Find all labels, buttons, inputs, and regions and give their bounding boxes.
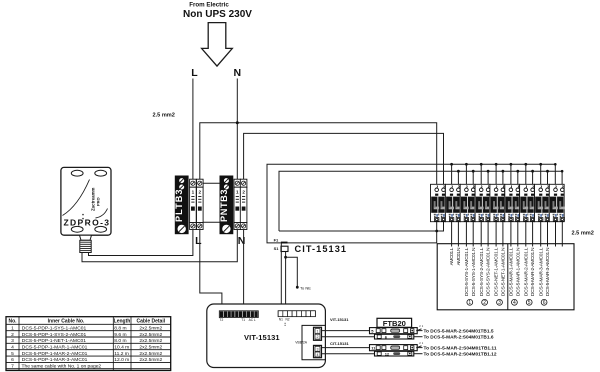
wire: FTB20.11 output <box>416 347 422 349</box>
fuse F1 <box>274 238 288 244</box>
junction + wire: L bus stub to breaker CB2 pole1 <box>450 163 453 184</box>
svg-text:VIT-15131: VIT-15131 <box>244 333 280 342</box>
svg-text:N2: N2 <box>286 318 290 322</box>
wire: rail bridge bottom between PLTB3 and PNTB3 <box>203 221 219 223</box>
wire: breaker CB7 pole2 output <box>532 222 534 247</box>
wire: breaker CB3 pole2 output <box>472 222 474 247</box>
svg-text:Non UPS 230V: Non UPS 230V <box>183 9 252 20</box>
label: To DCS-5-MAR-2:S04M01TB1.12 <box>424 352 498 357</box>
svg-text:2x2.5mm2: 2x2.5mm2 <box>139 351 162 357</box>
svg-text:DCS-5-MAR-3-AMC01.L: DCS-5-MAR-3-AMC01.L <box>538 247 544 296</box>
wire: ZDPRO-3 to PLTB3 pole1 bottom <box>89 230 193 256</box>
svg-text:5: 5 <box>11 351 14 357</box>
terminal block PNTB3: pole strip 2 <box>240 179 247 229</box>
svg-text:VBB/2A: VBB/2A <box>295 341 308 345</box>
wire: breaker CB8 pole1 output <box>540 222 542 247</box>
wire: inner N bus loop (to breakers) <box>279 171 562 231</box>
svg-text:2: 2 <box>242 190 245 195</box>
surge protector ZDPRO-3: body <box>61 167 111 235</box>
arrow: supply down-arrow <box>202 23 233 67</box>
label: CIT-15131 <box>295 244 347 254</box>
cable number 6 <box>541 299 547 306</box>
terminal block PLTB3: pole strip 1 <box>190 179 197 229</box>
net label: DCS-5-NET-1-AMC01.L <box>494 247 500 296</box>
svg-text:N: N <box>238 235 246 247</box>
circuit breaker CB2 <box>445 184 461 221</box>
svg-text:3: 3 <box>11 338 14 344</box>
wire: outer L bus loop (F1 to breakers) <box>267 164 555 243</box>
junction + wire: N bus stub to breaker CB3 pole2 <box>472 170 475 185</box>
node L (incoming line) <box>191 67 198 79</box>
svg-text:CIT-15131: CIT-15131 <box>295 244 347 254</box>
wire: J2.4 to FTB20 fuse terminal 12 <box>322 353 375 355</box>
net label: AMC01.L <box>449 247 455 265</box>
svg-text:DCS-5-NET-1-AMC01.N: DCS-5-NET-1-AMC01.N <box>501 247 507 296</box>
junction + wire: L bus stub to breaker CB3 pole1 <box>465 163 468 184</box>
wire: breaker CB3 pole1 output <box>465 222 467 247</box>
wire: breaker CB1 pole1 output to fuse F1 <box>288 222 437 243</box>
terminal block PLTB3: black bar <box>174 176 188 235</box>
junction: sense tap dot <box>284 256 287 259</box>
wire: breaker CB9 pole2 output <box>561 222 563 247</box>
svg-text:To NE: To NE <box>300 286 311 291</box>
svg-text:From Electric: From Electric <box>189 2 229 9</box>
svg-text:Inner Cable No.: Inner Cable No. <box>48 318 85 324</box>
svg-text:1: 1 <box>11 325 14 331</box>
svg-text:DCS-5-MAR-1-AMC01.L: DCS-5-MAR-1-AMC01.L <box>509 247 515 296</box>
junction + wire: L bus stub to breaker CB4 pole1 <box>480 163 483 184</box>
junction + wire: L bus stub to breaker CB5 pole1 <box>495 163 498 184</box>
VIT-15131 comms module VBB/2A <box>295 325 325 359</box>
cable schedule table <box>6 317 171 371</box>
cable number 3 <box>497 299 503 306</box>
net label: DCS-5-SYS-2-AMC01.L <box>479 247 485 296</box>
label: From Electric <box>189 2 229 9</box>
cable number 2 <box>482 299 488 306</box>
svg-text:2x2.5mm2: 2x2.5mm2 <box>139 345 162 351</box>
terminal block PNTB3: black bar <box>219 176 233 235</box>
svg-text:DCS-5-MAR-2-AMC01.L: DCS-5-MAR-2-AMC01.L <box>523 247 529 296</box>
svg-text:3: 3 <box>317 347 319 351</box>
net label: DCS-5-SYS-2-AMC01.N <box>486 247 492 296</box>
circuit breaker CB7 <box>520 184 536 221</box>
svg-text:2x2.5mm2: 2x2.5mm2 <box>139 332 162 338</box>
svg-text:11.2 m: 11.2 m <box>114 351 129 357</box>
svg-text:DCS-5-SYS-1-AMC01.N: DCS-5-SYS-1-AMC01.N <box>471 247 477 296</box>
circuit breaker CB9 <box>549 184 565 221</box>
junction + wire: N bus stub to breaker CB8 pole2 <box>546 170 549 185</box>
svg-text:DCS-5-PDP-1-MAR-3-AMC01: DCS-5-PDP-1-MAR-3-AMC01 <box>22 357 88 363</box>
junction: N tap dot on bus <box>236 121 239 124</box>
svg-text:7: 7 <box>11 364 14 370</box>
node N (protected output) <box>238 235 246 247</box>
junction + wire: N bus stub to breaker CB2 pole2 <box>457 170 460 185</box>
circuit breaker CB4 <box>475 184 491 221</box>
label: Non UPS 230V <box>183 9 252 20</box>
junction + wire: N bus stub to breaker CB7 pole2 <box>531 170 534 185</box>
svg-text:1: 1 <box>236 190 239 195</box>
cable number 4 <box>512 299 518 306</box>
net label: DCS-5-MAR-1-AMC01.L <box>509 247 515 296</box>
wire: S1 to VIT-15131 N2 <box>285 252 287 312</box>
svg-text:4: 4 <box>317 353 319 357</box>
svg-text:2x2.5mm2: 2x2.5mm2 <box>139 338 162 344</box>
svg-text:DCS-5-PDP-1-MAR-1-AMC01: DCS-5-PDP-1-MAR-1-AMC01 <box>22 345 88 351</box>
svg-text:2.5 mm2: 2.5 mm2 <box>153 113 175 119</box>
svg-text:AC L: AC L <box>249 318 256 322</box>
wire: FTB20.12 output <box>414 353 423 355</box>
terminal block FTB20: label box <box>377 318 412 328</box>
FTB20 fuse terminal 5/6 (unit 1) <box>370 324 424 339</box>
svg-text:1: 1 <box>192 190 195 195</box>
svg-text:DCS-5-MAR-3-AMC01.N: DCS-5-MAR-3-AMC01.N <box>545 247 551 296</box>
wire: breaker CB6 pole1 output <box>510 222 512 247</box>
label: To DCS-5-MAR-2:S04M01TB1.6 <box>424 335 495 340</box>
svg-text:To DCS-5-MAR-2:S04M01TB1.12: To DCS-5-MAR-2:S04M01TB1.12 <box>424 352 498 357</box>
circuit breaker CB5 <box>490 184 506 221</box>
svg-text:DCS-5-PDP-1-MAR-2-AMC01: DCS-5-PDP-1-MAR-2-AMC01 <box>22 351 88 357</box>
svg-text:2.5 mm2: 2.5 mm2 <box>572 230 594 236</box>
svg-text:10.4 m: 10.4 m <box>114 345 129 351</box>
junction + wire: L bus stub to breaker CB6 pole1 <box>510 163 513 184</box>
cable number 1 <box>467 299 473 306</box>
circuit breaker CB3 <box>460 184 476 221</box>
svg-text:5: 5 <box>528 300 531 306</box>
net label: DCS-5-MAR-2-AMC01.N <box>530 247 536 296</box>
svg-text:T1: T1 <box>241 318 245 322</box>
net label: AMC01.N <box>456 247 462 265</box>
svg-text:2x2.5mm2: 2x2.5mm2 <box>139 357 162 363</box>
svg-text:F1: F1 <box>274 238 279 243</box>
wire: breaker CB8 pole2 output <box>547 222 549 247</box>
wire: breaker CB6 pole2 output <box>517 222 519 247</box>
wire label: VIT-15131 pair <box>330 317 349 322</box>
svg-text:DCS-5-MAR-2-AMC01.N: DCS-5-MAR-2-AMC01.N <box>530 247 536 296</box>
wire: rail bridge top between PLTB3 and PNTB3 <box>203 182 219 184</box>
svg-text:AMC01.N: AMC01.N <box>456 247 462 265</box>
node L (protected output) <box>195 235 202 247</box>
circuit breaker CB8 <box>535 184 551 221</box>
VIT-15131 terminal strip T (black) <box>219 311 258 322</box>
net label: DCS-5-MAR-2-AMC01.L <box>523 247 529 296</box>
svg-text:DCS-5-SYS-2-AMC01.L: DCS-5-SYS-2-AMC01.L <box>479 247 485 296</box>
wire: ZDPRO-3 to PNTB3 pole1 bottom <box>82 230 237 262</box>
svg-text:FTB20: FTB20 <box>383 319 406 328</box>
svg-text:DCS-5-NET-1-AMC01.L: DCS-5-NET-1-AMC01.L <box>494 247 500 296</box>
FTB20 fuse terminal 11/12 (unit 2) <box>370 341 424 356</box>
wire: breaker CB4 pole2 output <box>487 222 489 247</box>
net label: DCS-5-SYS-1-AMC01.N <box>471 247 477 296</box>
label: To DCS-5-MAR-2:S04M01TB1.11 <box>424 345 498 350</box>
current sensor S1 <box>274 246 288 252</box>
svg-text:6: 6 <box>543 300 546 306</box>
wire: J1.2 to FTB20 fuse terminal 6 <box>322 336 375 338</box>
svg-text:VIT-15131: VIT-15131 <box>330 317 349 322</box>
svg-text:1: 1 <box>468 300 471 306</box>
wire: tap to NE reference <box>286 257 299 288</box>
circuit breaker CB1 <box>431 184 447 221</box>
wire: J1.1 to FTB20 fuse terminal 5 <box>322 330 370 332</box>
svg-text:DCS-5-SYS-2-AMC01.N: DCS-5-SYS-2-AMC01.N <box>486 247 492 296</box>
wire: bus from PNTB3 pole2 to breaker CB1 pole2 <box>244 133 444 184</box>
junction + wire: L bus stub to breaker CB8 pole1 <box>539 163 542 184</box>
svg-text:1: 1 <box>317 330 319 334</box>
node N (incoming neutral) <box>234 67 242 79</box>
wire: N from arrow to PNTB3 pole1 <box>236 79 238 180</box>
svg-text:Cable Detail: Cable Detail <box>136 318 165 324</box>
wire label: CIT-15131 pair <box>330 341 349 346</box>
svg-text:2: 2 <box>199 190 202 195</box>
svg-text:T2: T2 <box>220 318 224 322</box>
svg-text:1: 1 <box>422 324 424 328</box>
junction + wire: N bus stub to breaker CB5 pole2 <box>502 170 505 185</box>
circuit breaker CB6 <box>505 184 521 221</box>
svg-text:DCS-5-PDP-1-NET-1-AMC01: DCS-5-PDP-1-NET-1-AMC01 <box>22 338 86 344</box>
svg-text:2: 2 <box>483 300 486 306</box>
svg-text:L: L <box>191 67 198 79</box>
net label: DCS-5-MAR-3-AMC01.N <box>545 247 551 296</box>
svg-text:N1: N1 <box>279 318 283 322</box>
svg-text:PLTB3: PLTB3 <box>174 190 184 223</box>
svg-text:3: 3 <box>498 300 501 306</box>
connector J1 (pins 1,2) <box>314 327 322 340</box>
wire: J2.3 to FTB20 fuse terminal 11 <box>322 347 370 349</box>
svg-text:CIT-15131: CIT-15131 <box>330 341 349 346</box>
label: 2.5 mm2 (outgoing) <box>572 230 594 236</box>
svg-text:DCS-5-MAR-1-AMC01.N: DCS-5-MAR-1-AMC01.N <box>515 247 521 296</box>
svg-text:S1: S1 <box>274 246 280 251</box>
svg-text:To DCS-5-MAR-2:S04M01TB1.11: To DCS-5-MAR-2:S04M01TB1.11 <box>424 345 498 350</box>
wire: breaker CB7 pole1 output <box>525 222 527 247</box>
net label: DCS-5-MAR-1-AMC01.N <box>515 247 521 296</box>
svg-text:N: N <box>234 67 242 79</box>
wire: bus from PLTB3 pole2 to breaker CB1 pole1 <box>200 123 437 185</box>
wire: breaker CB9 pole1 output <box>555 222 557 247</box>
connector J2 (pins 3,4) <box>314 345 322 357</box>
svg-text:4: 4 <box>513 300 516 306</box>
wire: L from arrow to PLTB3 pole1 <box>192 79 194 180</box>
svg-text:12: 12 <box>385 351 390 356</box>
svg-text:The same cable with No. 1 on p: The same cable with No. 1 on page2 <box>22 364 102 370</box>
junction + wire: L bus stub to breaker CB7 pole1 <box>524 163 527 184</box>
svg-text:8.8 m: 8.8 m <box>114 325 126 331</box>
svg-text:4: 4 <box>11 345 14 351</box>
wire: FTB20.5 output <box>416 330 422 332</box>
svg-text:DCS-5-PDP-1-SYS-1-AMC01: DCS-5-PDP-1-SYS-1-AMC01 <box>22 325 87 331</box>
svg-text:PRO: PRO <box>96 197 101 206</box>
wire: breaker CB2 pole2 output <box>457 222 459 247</box>
wire: breaker CB5 pole1 output <box>495 222 497 247</box>
VIT-15131 terminal strip N (white) <box>278 311 315 326</box>
svg-text:PNTB3: PNTB3 <box>219 190 229 223</box>
outgoing distribution box <box>437 244 574 310</box>
svg-text:To DCS-5-MAR-2:S04M01TB1.6: To DCS-5-MAR-2:S04M01TB1.6 <box>424 335 495 340</box>
svg-text:2: 2 <box>317 335 319 339</box>
wire: L output from PLTB3 pole2 to VIT-15131 input T1 <box>200 230 222 312</box>
svg-text:L: L <box>195 235 202 247</box>
wire: breaker CB4 pole1 output <box>480 222 482 247</box>
svg-text:8.0 m: 8.0 m <box>114 338 126 344</box>
svg-text:2x2.5mm2: 2x2.5mm2 <box>139 325 162 331</box>
net label: DCS-5-SYS-1-AMC01.L <box>464 247 470 296</box>
net label: DCS-5-MAR-3-AMC01.L <box>538 247 544 296</box>
svg-text:DCS-5-PDP-1-SYS-2-AMC01: DCS-5-PDP-1-SYS-2-AMC01 <box>22 332 87 338</box>
label: To NE <box>300 286 311 291</box>
terminal block PNTB3: pole strip 1 <box>234 179 241 229</box>
svg-text:ZDPRO-3: ZDPRO-3 <box>64 218 110 228</box>
svg-text:2: 2 <box>11 332 14 338</box>
svg-text:AMC01.L: AMC01.L <box>449 247 455 265</box>
net label: DCS-5-NET-1-AMC01.N <box>501 247 507 296</box>
svg-text:Length: Length <box>114 318 131 324</box>
svg-text:To DCS-5-MAR-2:S04M01TB1.5: To DCS-5-MAR-2:S04M01TB1.5 <box>424 328 495 333</box>
label: 2.5 mm2 (left feeder) <box>153 113 175 119</box>
surge protector ZDPRO-3: cable gland <box>80 235 92 252</box>
svg-text:12.0 m: 12.0 m <box>114 357 129 363</box>
svg-text:9.6 m: 9.6 m <box>114 332 126 338</box>
svg-text:No.: No. <box>8 318 17 324</box>
svg-text:6: 6 <box>11 357 14 363</box>
cable number 5 <box>526 299 532 306</box>
svg-text:1: 1 <box>422 341 424 345</box>
junction: bus end corner dots + CB1 pole junction <box>435 163 563 232</box>
wire: F1 to VIT-15131 N1 <box>280 244 282 312</box>
junction + wire: N bus stub to breaker CB6 pole2 <box>516 170 519 185</box>
terminal block PLTB3: pole strip 2 <box>197 179 204 229</box>
junction + wire: N bus stub to breaker CB4 pole2 <box>487 170 490 185</box>
label: To DCS-5-MAR-2:S04M01TB1.5 <box>424 328 495 333</box>
wire: breaker CB5 pole2 output <box>502 222 504 247</box>
wire: FTB20.6 output <box>414 336 423 338</box>
wire: breaker CB2 pole1 output <box>451 222 453 247</box>
wire: N output from PNTB3 pole2 to VIT-15131 input Tn <box>243 230 245 312</box>
svg-text:DCS-5-SYS-1-AMC01.L: DCS-5-SYS-1-AMC01.L <box>464 247 470 296</box>
instrument VIT-15131: body <box>207 304 326 368</box>
